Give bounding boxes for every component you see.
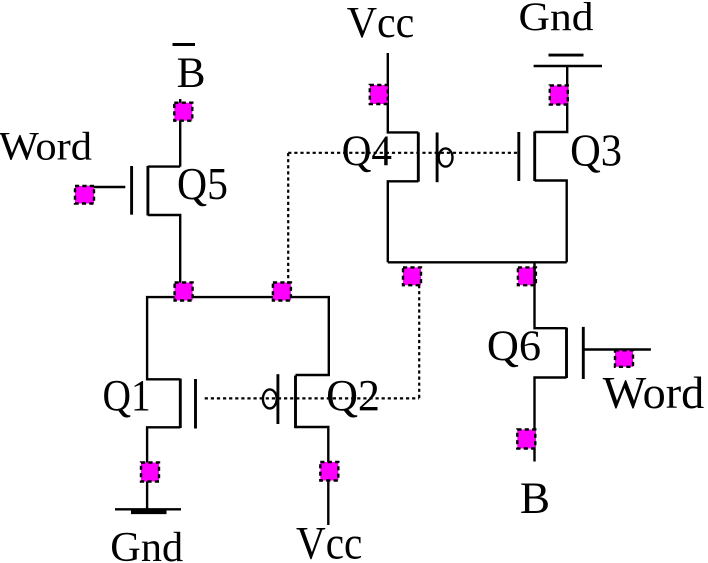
- node Vcc top terminal square: [370, 85, 388, 104]
- transistor Q3 channel bar: [533, 132, 536, 182]
- wire Bbar to Q5 drain: [148, 99, 180, 167]
- svg-text:Vcc: Vcc: [347, 0, 415, 47]
- svg-text:Gnd: Gnd: [110, 525, 183, 563]
- wire Word to Q5 gate: [82, 186, 125, 188]
- node Bbar overline: [173, 43, 196, 46]
- wire rail to Q6 drain: [535, 262, 567, 328]
- node rail right terminal square: [518, 267, 536, 285]
- svg-text:Gnd: Gnd: [519, 0, 594, 39]
- transistor Q5 channel bar: [146, 166, 149, 216]
- wire Q6 source to B: [535, 378, 567, 462]
- node left terminal square: [175, 283, 193, 301]
- transistor Q5 gate bar: [130, 166, 133, 215]
- svg-text:Q6: Q6: [487, 323, 541, 370]
- node B terminal square: [517, 430, 535, 449]
- svg-text:Vcc: Vcc: [296, 518, 362, 563]
- node Q1 source terminal square: [141, 463, 159, 482]
- node rail left terminal square: [403, 267, 421, 285]
- node Gnd top terminal square: [550, 86, 568, 105]
- transistor Q2 bubble: [263, 389, 277, 408]
- wire Gnd to Q3: [535, 66, 568, 132]
- ground symbol top right short bar: [549, 54, 584, 57]
- wire dashed node to Q3 Q4 gates vertical: [287, 153, 289, 284]
- wire Q2 source to Vcc: [296, 427, 329, 525]
- wire dashed node to Q3 Q4 gates horizontal: [288, 152, 518, 154]
- transistor Q4 bubble: [439, 148, 453, 166]
- wire dashed Q3Q4 drain node to Q1 Q2 gates horizontal: [205, 397, 420, 399]
- transistor Q3 gate bar: [517, 132, 520, 181]
- node Word left terminal square: [75, 186, 94, 204]
- svg-text:Q5: Q5: [177, 159, 228, 209]
- wire bottom rail of Q3 Q4: [388, 261, 567, 263]
- svg-text:Word: Word: [603, 368, 705, 418]
- wire node row with drops to Q1 and Q2: [147, 297, 329, 379]
- ground symbol bottom left: [115, 508, 181, 510]
- node Q2 source terminal square: [320, 462, 338, 481]
- wire dashed Q3Q4 drain node to Q1 Q2 gates vertical: [418, 285, 420, 398]
- wire Vcc to Q4: [388, 53, 419, 132]
- svg-text:Q3: Q3: [570, 125, 622, 176]
- svg-text:Word: Word: [0, 123, 92, 168]
- wire Q3 drain to bottom rail: [535, 181, 567, 263]
- node Bbar terminal square: [174, 103, 192, 121]
- wire Q5 source to node row: [148, 215, 180, 297]
- transistor Q4 channel bar: [417, 132, 420, 181]
- node Word right terminal square: [615, 350, 633, 367]
- transistor Q4 gate bar: [436, 133, 439, 183]
- transistor Q6 gate bar: [582, 327, 585, 379]
- svg-text:Q2: Q2: [326, 370, 380, 420]
- svg-text:Q1: Q1: [103, 370, 151, 420]
- transistor Q6 channel bar: [565, 328, 568, 378]
- wire Q4 drain to bottom rail: [388, 181, 419, 262]
- ground symbol top right long bar: [534, 65, 602, 67]
- transistor Q1 channel bar: [179, 379, 182, 428]
- transistor Q2 channel bar: [294, 376, 297, 429]
- wire Q6 gate lead: [585, 348, 651, 350]
- svg-text:B: B: [520, 473, 550, 523]
- wire Q1 source to ground: [147, 427, 180, 509]
- transistor Q1 gate bar: [194, 379, 197, 429]
- svg-text:Q4: Q4: [342, 127, 392, 175]
- transistor Q2 gate bar: [276, 374, 279, 424]
- svg-text:B: B: [177, 50, 206, 97]
- node right terminal square: [273, 283, 291, 301]
